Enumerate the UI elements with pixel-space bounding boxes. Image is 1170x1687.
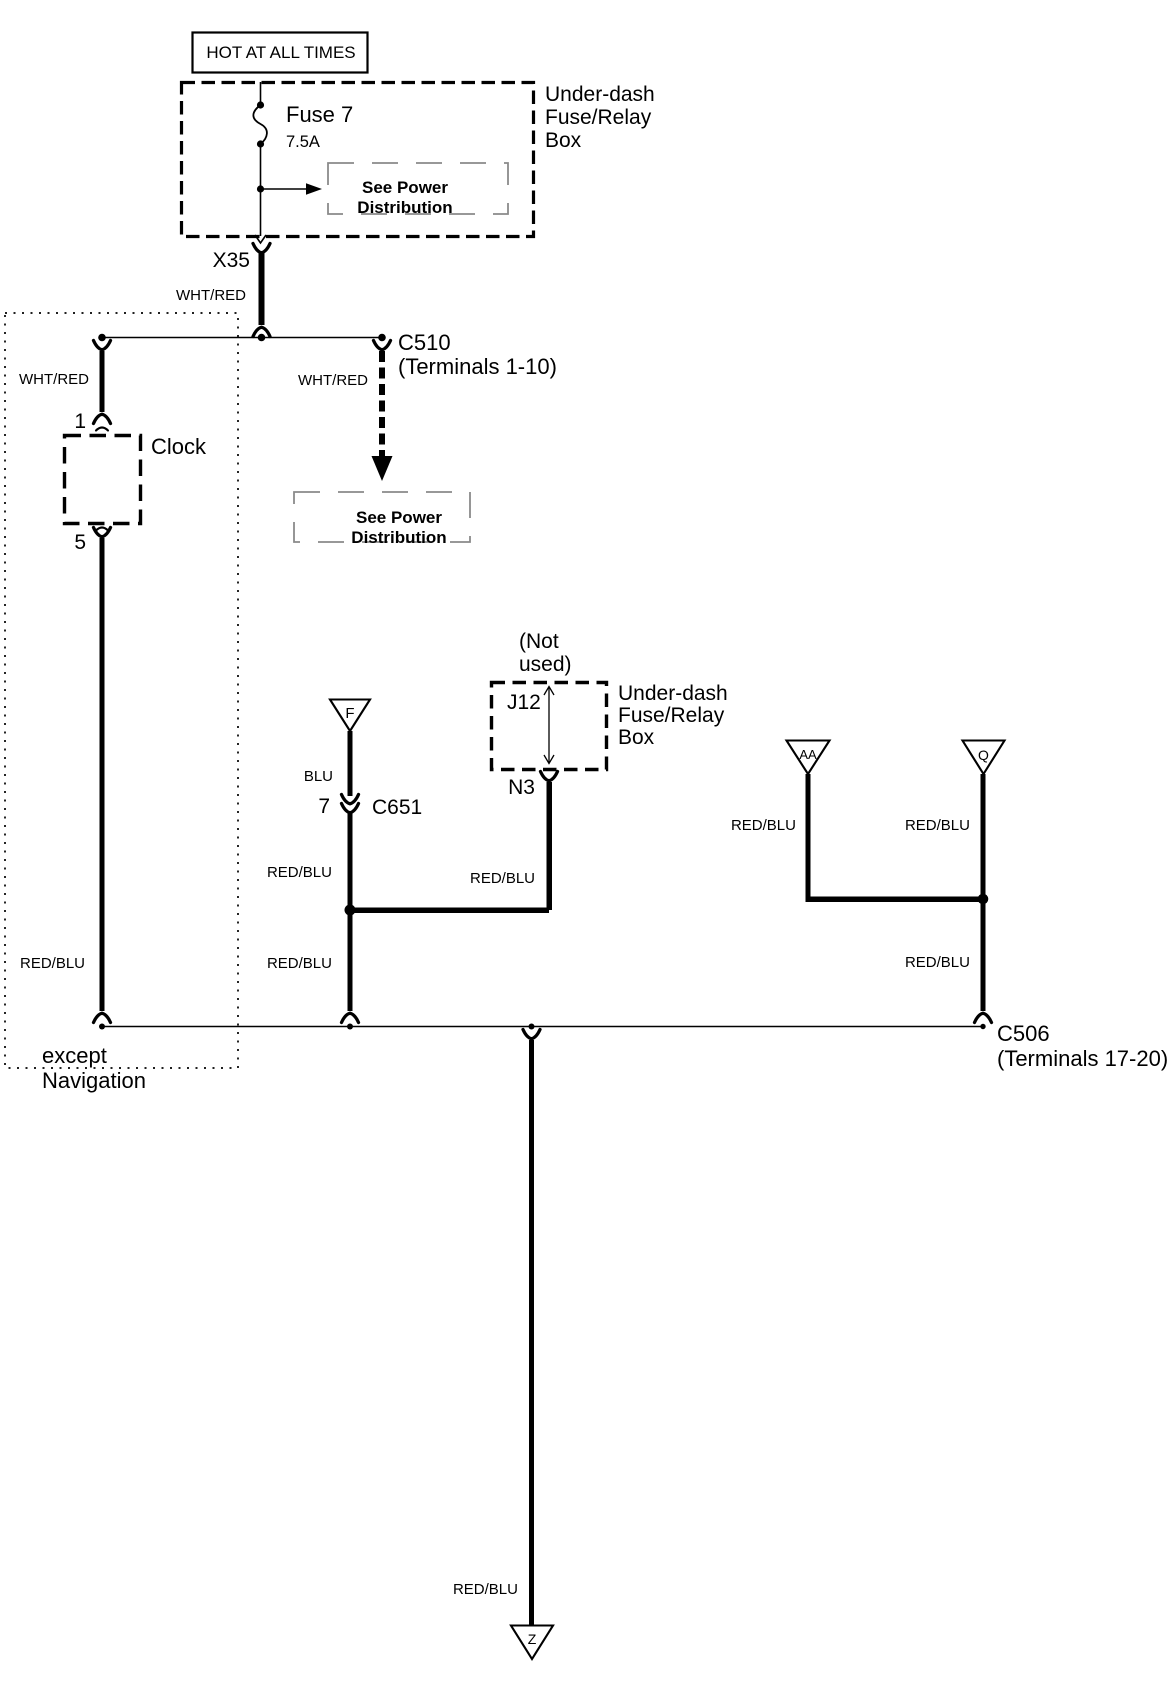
node clock end [99,1024,105,1030]
svg-text:RED/BLU: RED/BLU [905,817,970,834]
svg-text:Distribution: Distribution [351,528,446,547]
node Z branch [529,1024,535,1030]
svg-text:RED/BLU: RED/BLU [267,864,332,881]
small arrow out of fuse box bottom [255,235,266,243]
except Navigation dotted box [5,313,238,1068]
wire RED/BLU clock down [100,538,105,1011]
svg-text:C506: C506 [997,1021,1050,1046]
node F end [347,1024,353,1030]
svg-text:7: 7 [318,795,330,818]
svg-text:Fuse/Relay: Fuse/Relay [618,704,725,727]
svg-text:N3: N3 [508,776,535,799]
svg-text:J12: J12 [507,691,541,714]
node C506 [980,1024,985,1029]
svg-text:Box: Box [545,129,582,152]
wire inside fuse box (thin vertical) [260,82,262,104]
svg-text:AA: AA [799,747,817,762]
fuse F7 element [253,101,267,147]
See Power Distribution box 1 [328,163,508,217]
label (Not used) [519,630,572,676]
svg-text:1: 1 [74,410,86,433]
svg-text:Navigation: Navigation [42,1068,146,1093]
label Fuse 7 / 7.5A [286,102,353,151]
wire horizontal junction to N3 [350,908,549,914]
wire RED/BLU junction down to C506 [981,899,986,1011]
label C510 (Terminals 1-10) [398,330,557,379]
svg-text:BLU: BLU [304,768,333,785]
connector pin 5 [96,528,108,531]
J12 internal arrow (not used) [544,687,554,764]
J12 box (dashed) [492,683,607,770]
connector N3 [541,772,558,781]
svg-text:Fuse/Relay: Fuse/Relay [545,106,652,129]
connector C506 [975,1013,992,1022]
clock component box [65,436,141,524]
wire RED/BLU down to Z [529,1040,534,1625]
connector pin 1 [94,414,111,423]
node C510 [378,334,386,342]
connector X35 top [253,244,270,253]
svg-text:C651: C651 [372,796,422,819]
svg-text:RED/BLU: RED/BLU [905,954,970,971]
label except Navigation [42,1043,146,1093]
label C506 (Terminals 17-20) [997,1021,1168,1071]
svg-text:Distribution: Distribution [357,198,452,217]
svg-text:RED/BLU: RED/BLU [453,1581,518,1598]
svg-text:(Terminals 1-10): (Terminals 1-10) [398,354,557,379]
triangle AA [787,741,830,775]
wire: thin horizontal bus y=1026.5 [102,1026,983,1028]
svg-text:Q: Q [978,747,989,763]
wire RED/BLU from Q [981,774,986,899]
connector Z top [523,1030,540,1039]
svg-text:Fuse 7: Fuse 7 [286,102,353,127]
svg-text:WHT/RED: WHT/RED [298,372,368,389]
svg-text:See Power: See Power [362,178,448,197]
svg-text:See Power: See Power [356,508,442,527]
svg-text:Clock: Clock [151,434,207,459]
svg-text:except: except [42,1043,107,1068]
connector X35 bottom [253,327,270,336]
svg-text:F: F [345,705,354,722]
connector clock wire bottom [94,1013,111,1022]
wire horizontal AA to Q [806,897,984,903]
triangle F [330,700,370,732]
svg-text:(Terminals 17-20): (Terminals 17-20) [997,1046,1168,1071]
label Under-dash Fuse/Relay Box (J12) [618,682,728,749]
svg-text:5: 5 [74,531,86,554]
wire RED/BLU from AA [806,774,811,899]
wire: thin horizontal bus y=337.5 [102,337,382,339]
svg-text:used): used) [519,653,572,676]
connector C510 top [374,341,391,350]
node left [98,334,106,342]
svg-text:Z: Z [528,1631,537,1647]
svg-text:RED/BLU: RED/BLU [20,955,85,972]
node F junction [345,905,356,916]
arrowhead C510 [372,456,393,481]
svg-text:7.5A: 7.5A [286,133,320,151]
svg-text:WHT/RED: WHT/RED [19,371,89,388]
svg-text:C510: C510 [398,330,451,355]
wire BLU from F [348,731,353,796]
arrow to See Power Distribution [257,183,322,195]
svg-text:WHT/RED: WHT/RED [176,287,246,304]
svg-text:X35: X35 [213,249,250,272]
label HOT AT ALL TIMES box [193,33,368,73]
svg-text:(Not: (Not [519,630,559,653]
node AA/Q junction [978,894,989,905]
wire RED/BLU N3 down [547,782,553,910]
triangle Q [963,741,1005,775]
svg-text:Box: Box [618,726,655,749]
See Power Distribution box 2 [294,492,470,547]
wire RED/BLU junction down [348,910,353,1011]
node X35 junction [258,334,266,342]
svg-text:RED/BLU: RED/BLU [731,817,796,834]
wire RED/BLU from C651 down [348,813,353,908]
svg-text:Under-dash: Under-dash [618,682,728,705]
svg-text:Under-dash: Under-dash [545,83,655,106]
triangle Z [511,1626,553,1660]
connector C651 [342,795,359,813]
svg-text:RED/BLU: RED/BLU [267,955,332,972]
connector F wire bottom [342,1013,359,1022]
svg-text:HOT AT ALL TIMES: HOT AT ALL TIMES [206,43,355,62]
label Under-dash Fuse/Relay Box [545,83,655,152]
under-dash fuse/relay box (dashed) [182,83,534,237]
svg-text:RED/BLU: RED/BLU [470,870,535,887]
connector clock top [94,341,111,350]
wire WHT/RED to clock pin 1 [100,351,105,412]
wire C510 dashed thick [379,351,385,458]
wire X35 (thick vertical WHT/RED) [259,253,265,325]
